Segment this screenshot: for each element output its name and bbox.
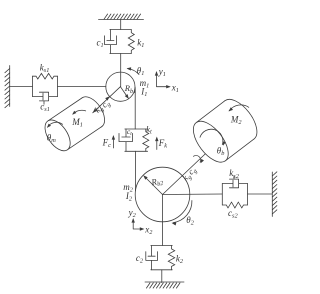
- wire: [58, 85, 106, 87]
- gear mesh spring-damper kg cg (line of action 2): [163, 151, 209, 195]
- coordinate axes x1 y1: [157, 73, 170, 87]
- wire: [120, 20, 122, 30]
- gear 1 (pinion m1,I1): [106, 72, 135, 101]
- rotation arrow theta_m: [48, 122, 63, 127]
- force Fk: [156, 138, 158, 150]
- spring cs2: [222, 202, 247, 208]
- spring kt: [143, 129, 149, 151]
- wire: [161, 270, 163, 283]
- wire: [248, 193, 273, 195]
- rotation arrow theta1: [128, 69, 139, 75]
- wall (left fixed support): [9, 66, 11, 107]
- torque arrow M1: [73, 110, 86, 114]
- damper c1: [110, 29, 132, 31]
- wire: [163, 193, 223, 196]
- wire: [135, 151, 137, 190]
- gear 2 (wheel m2,I2): [135, 167, 190, 222]
- gear mesh spring-damper kg cg (line of action 1): [92, 87, 120, 114]
- damper ks2: [222, 184, 247, 206]
- wire: [120, 54, 122, 87]
- rotation arrow theta2: [173, 201, 192, 223]
- damper c2: [151, 245, 173, 247]
- radius arrow Rb2: [145, 177, 163, 195]
- spring k1: [128, 30, 134, 54]
- force Fc: [112, 137, 114, 149]
- coordinate axes x2 y2: [133, 220, 143, 230]
- wire: [10, 85, 33, 87]
- damper cs1: [33, 92, 58, 104]
- radius arrow Rb1: [120, 87, 128, 98]
- spring k2: [168, 246, 174, 270]
- ground (top fixed support): [99, 19, 144, 21]
- wall (right fixed support): [271, 172, 273, 217]
- spring ks1: [33, 76, 58, 96]
- rotation arrow theta_b: [200, 129, 223, 144]
- ground (bottom fixed support): [145, 281, 184, 283]
- wire: [134, 88, 136, 130]
- torque arrow M2: [229, 105, 249, 111]
- wire: [162, 195, 164, 246]
- motor M2 (load cylinder): [187, 93, 264, 168]
- damper ct: [125, 128, 148, 130]
- motor M1 (drive motor cylinder): [40, 92, 110, 155]
